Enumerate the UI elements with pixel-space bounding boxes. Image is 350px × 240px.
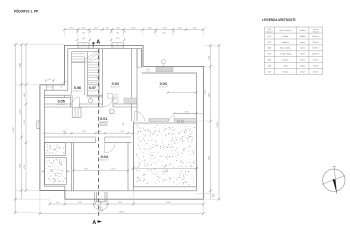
svg-text:8,40 m²: 8,40 m²	[313, 41, 319, 44]
svg-text:prádelna: prádelna	[282, 42, 289, 44]
svg-text:0.05: 0.05	[268, 59, 272, 61]
svg-text:1880: 1880	[24, 93, 26, 97]
svg-text:A: A	[92, 220, 96, 226]
svg-text:PŮDORYS 1. PP:: PŮDORYS 1. PP:	[14, 8, 39, 13]
svg-text:0.02: 0.02	[268, 42, 272, 44]
svg-text:±0,000: ±0,000	[98, 211, 103, 213]
svg-text:1730: 1730	[120, 131, 124, 133]
svg-text:1750: 1750	[193, 27, 197, 29]
svg-text:±0,000: ±0,000	[101, 124, 107, 126]
svg-text:690: 690	[99, 131, 102, 133]
svg-text:0.05: 0.05	[58, 99, 65, 103]
svg-text:2,30 m²: 2,30 m²	[73, 90, 82, 93]
svg-text:místnosti: místnosti	[266, 30, 273, 33]
svg-text:1950: 1950	[131, 27, 135, 29]
svg-text:0.04: 0.04	[268, 54, 272, 56]
svg-text:1300: 1300	[177, 27, 181, 29]
svg-text:0.07: 0.07	[268, 71, 272, 73]
svg-text:dlažba: dlažba	[300, 65, 305, 67]
svg-text:950: 950	[106, 27, 109, 29]
svg-text:LEGENDA MÍSTNOSTÍ:: LEGENDA MÍSTNOSTÍ:	[262, 17, 296, 22]
svg-text:chodba: chodba	[282, 36, 288, 38]
svg-text:dílna, kotelna: dílna, kotelna	[280, 47, 291, 50]
svg-text:4780: 4780	[24, 165, 26, 169]
svg-text:1,20 m²: 1,20 m²	[57, 103, 66, 106]
svg-text:900: 900	[48, 79, 51, 81]
svg-text:název místnosti: název místnosti	[280, 29, 292, 32]
svg-text:komora: komora	[282, 71, 288, 73]
svg-text:17,85 m²: 17,85 m²	[312, 47, 319, 50]
svg-text:1780: 1780	[82, 131, 86, 133]
svg-text:0.03: 0.03	[160, 82, 167, 86]
svg-text:1,61 m²: 1,61 m²	[88, 90, 97, 93]
svg-text:18,06 m²: 18,06 m²	[100, 159, 109, 162]
svg-text:0.01: 0.01	[100, 117, 107, 121]
svg-text:2100: 2100	[209, 56, 211, 60]
svg-text:2,30 m²: 2,30 m²	[313, 64, 319, 67]
svg-text:1650: 1650	[185, 111, 189, 113]
svg-text:beton: beton	[300, 41, 305, 44]
svg-text:4040: 4040	[20, 63, 22, 67]
svg-text:3910: 3910	[24, 120, 26, 124]
svg-text:1300: 1300	[147, 27, 151, 29]
svg-text:0.06: 0.06	[74, 86, 81, 90]
svg-text:beton: beton	[300, 58, 305, 61]
svg-text:1,20 m²: 1,20 m²	[313, 58, 319, 61]
svg-text:1700: 1700	[162, 27, 166, 29]
svg-text:15390: 15390	[217, 122, 219, 127]
svg-text:6850: 6850	[164, 171, 168, 173]
svg-text:chodba, sklep: chodba, sklep	[280, 54, 291, 56]
svg-text:sklad: sklad	[283, 65, 287, 67]
svg-text:15390: 15390	[13, 127, 15, 132]
svg-text:0.03: 0.03	[268, 48, 272, 50]
svg-text:0.07: 0.07	[89, 86, 96, 90]
svg-text:10,00 m²: 10,00 m²	[312, 35, 319, 38]
svg-text:18,06 m²: 18,06 m²	[312, 53, 319, 56]
svg-text:5450: 5450	[209, 93, 211, 97]
svg-text:900: 900	[82, 32, 85, 34]
svg-text:1350: 1350	[69, 27, 73, 29]
svg-text:0.02: 0.02	[112, 82, 119, 86]
svg-text:2660: 2660	[118, 202, 122, 204]
svg-text:900: 900	[82, 38, 85, 40]
svg-text:0.06: 0.06	[268, 65, 272, 67]
svg-text:1870: 1870	[84, 169, 88, 171]
svg-text:1350: 1350	[94, 27, 98, 29]
svg-text:5250: 5250	[20, 110, 22, 114]
svg-text:900: 900	[116, 32, 119, 34]
svg-text:6850: 6850	[166, 202, 170, 204]
svg-text:beton: beton	[300, 70, 305, 73]
svg-text:komora: komora	[282, 59, 288, 61]
svg-text:dlažba: dlažba	[300, 36, 305, 38]
svg-text:900: 900	[116, 38, 119, 40]
svg-text:0.01: 0.01	[268, 36, 272, 38]
svg-text:910: 910	[56, 202, 59, 204]
svg-text:900: 900	[123, 122, 125, 125]
svg-text:1530: 1530	[62, 131, 66, 133]
svg-text:5700: 5700	[20, 164, 22, 168]
svg-text:beton: beton	[300, 53, 305, 56]
svg-text:místnosti: místnosti	[312, 30, 319, 33]
svg-text:podlaha: podlaha	[300, 30, 306, 32]
svg-text:17,85 m²: 17,85 m²	[159, 85, 168, 88]
svg-text:6980: 6980	[209, 156, 211, 160]
svg-text:beton: beton	[300, 47, 305, 50]
svg-text:2,61 m²: 2,61 m²	[313, 70, 319, 73]
svg-text:16360: 16360	[119, 211, 124, 213]
svg-text:8,40 m²: 8,40 m²	[111, 85, 120, 88]
svg-text:3110: 3110	[78, 202, 82, 204]
svg-text:900: 900	[99, 208, 102, 210]
svg-text:A: A	[96, 40, 100, 46]
svg-text:900: 900	[163, 32, 166, 34]
svg-text:0.04: 0.04	[101, 155, 108, 159]
svg-text:2100: 2100	[205, 90, 207, 94]
svg-text:1100: 1100	[81, 27, 85, 29]
svg-text:2190: 2190	[111, 169, 115, 171]
svg-text:1150: 1150	[116, 27, 120, 29]
